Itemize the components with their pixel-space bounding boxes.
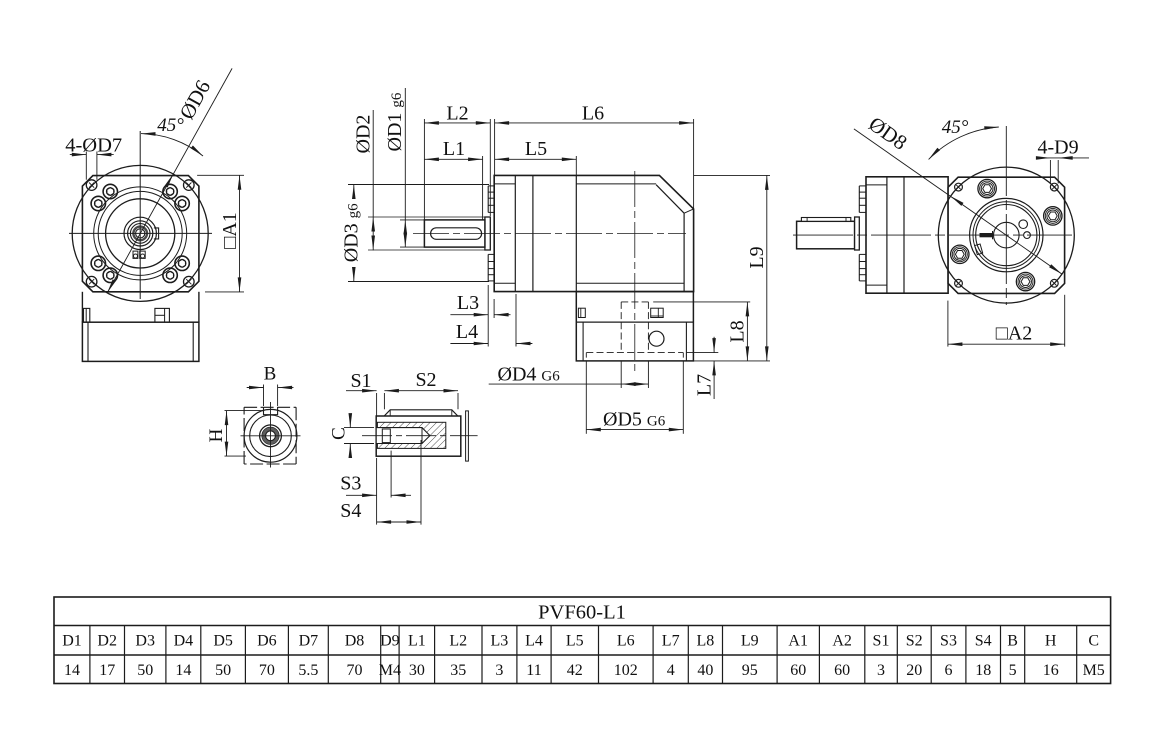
dimension L1 line <box>482 156 484 220</box>
dimension L9 <box>694 174 770 176</box>
svg-text:11: 11 <box>526 662 541 679</box>
svg-text:50: 50 <box>137 662 153 679</box>
svg-text:B: B <box>1007 633 1018 650</box>
svg-text:17: 17 <box>99 662 115 679</box>
middle view: input shaft <box>424 220 485 247</box>
svg-text:L9: L9 <box>746 246 768 268</box>
right view: four socket screws <box>1044 207 1062 225</box>
svg-text:5.5: 5.5 <box>298 662 318 679</box>
svg-text:60: 60 <box>790 662 806 679</box>
svg-text:D8: D8 <box>345 633 365 650</box>
svg-text:30: 30 <box>409 662 425 679</box>
middle view: gearbox body outline <box>494 175 693 291</box>
detail view shaft end: circles <box>244 409 297 462</box>
svg-text:A2: A2 <box>832 633 852 650</box>
middle view: section division lines <box>514 175 516 291</box>
svg-text:D1: D1 <box>62 633 82 650</box>
svg-text:L7: L7 <box>662 633 680 650</box>
svg-text:L4: L4 <box>525 633 543 650</box>
left view: square input flange outline <box>82 176 198 292</box>
detail view shaft end: keyway <box>264 407 278 414</box>
dimension D1 vertical line and arrows <box>404 88 406 247</box>
svg-text:C: C <box>329 427 350 440</box>
left view: corner mounting holes 4-D7 with cross marks <box>86 180 97 191</box>
svg-text:16: 16 <box>1043 662 1059 679</box>
detail section view: counterbore box <box>382 429 390 443</box>
dimension D8 diagonal line <box>854 129 1062 274</box>
left view: left clamp tab <box>84 308 90 322</box>
svg-text:S3: S3 <box>340 473 361 495</box>
svg-text:4: 4 <box>667 662 675 679</box>
middle view: output box right tab <box>651 308 664 317</box>
svg-text:4-ØD7: 4-ØD7 <box>65 135 122 157</box>
svg-text:3: 3 <box>495 662 503 679</box>
dimension B <box>263 385 265 407</box>
dimension D5 G6 <box>585 361 587 434</box>
svg-text:35: 35 <box>450 662 466 679</box>
svg-text:L6: L6 <box>582 103 604 125</box>
dimension 45 degree arc left view <box>141 134 203 156</box>
svg-text:D4: D4 <box>174 633 194 650</box>
svg-text:□A1: □A1 <box>219 212 241 249</box>
dimension 4-D7 extension lines <box>85 152 87 180</box>
right view: two small holes <box>1019 220 1028 229</box>
left view: bore keyway <box>154 228 159 239</box>
middle view: corner chamfer inner edge <box>656 185 684 214</box>
dimension L6 line <box>494 119 496 175</box>
dimension S3 <box>376 458 378 525</box>
dimension L4 <box>515 294 517 347</box>
detail section view: body rectangle <box>376 416 461 456</box>
svg-text:70: 70 <box>347 662 363 679</box>
detail view shaft end: square outline <box>244 406 296 408</box>
left view: bottom block of housing <box>82 322 198 361</box>
right view: square output flange outline <box>948 177 1065 293</box>
right view: shaft shoulder <box>855 217 860 250</box>
svg-text:L2: L2 <box>449 633 467 650</box>
dimension D2 vertical line and arrows <box>372 110 374 250</box>
svg-text:S4: S4 <box>975 633 992 650</box>
right view: crosshair lines <box>793 234 1072 236</box>
dimension D4 G6 leader and arrows <box>620 361 622 388</box>
svg-text:14: 14 <box>175 662 191 679</box>
middle view: serrated clamping strip <box>493 186 495 281</box>
right view: corner holes 4-D9 with cross marks <box>955 183 963 191</box>
dimension D3 line with arrows <box>353 185 355 197</box>
data table column rules <box>89 626 91 684</box>
right view: circle D8 <box>938 167 1074 303</box>
middle view: front flange chamfer lines <box>494 183 515 185</box>
detail section view: tapped hole cavity <box>376 428 430 444</box>
right view: center boss circles <box>970 198 1043 271</box>
svg-text:18: 18 <box>975 662 991 679</box>
right view: bore keyway bar <box>980 233 993 237</box>
middle view: small hole on output box <box>649 331 664 346</box>
svg-text:S1: S1 <box>350 370 371 392</box>
middle view: input shaft shoulder <box>485 217 490 250</box>
svg-text:L8: L8 <box>697 633 715 650</box>
svg-text:42: 42 <box>567 662 583 679</box>
svg-text:L1: L1 <box>443 138 465 160</box>
svg-text:D3: D3 <box>135 633 155 650</box>
svg-text:45°: 45° <box>942 117 969 138</box>
dimension A1 line with arrows <box>239 175 241 292</box>
dimension 4-D7 arrows and line <box>70 154 87 156</box>
right view: shaft key strip <box>801 218 850 222</box>
left view: right clamp tab <box>155 308 170 322</box>
dimension D3 extension lines <box>348 184 489 186</box>
left view: center crosshair lines <box>69 232 212 234</box>
data table outer frame <box>54 597 1111 684</box>
dimension H <box>225 410 264 412</box>
svg-text:4-D9: 4-D9 <box>1038 137 1079 159</box>
middle view: output housing box <box>576 292 693 361</box>
svg-text:S3: S3 <box>940 633 957 650</box>
svg-text:H: H <box>206 428 227 442</box>
middle view: rear square chamfer lines <box>576 183 656 185</box>
svg-text:□A2: □A2 <box>996 323 1033 345</box>
left view: hub circles <box>124 217 156 249</box>
dimension S1 S2 line <box>376 393 378 416</box>
left view: lower band of housing <box>81 292 83 322</box>
svg-text:5: 5 <box>1009 662 1017 679</box>
right view: input shaft <box>797 221 855 249</box>
svg-text:L5: L5 <box>525 138 547 160</box>
svg-text:L5: L5 <box>566 633 584 650</box>
left view: pilot circle D6 <box>72 165 208 301</box>
svg-text:S1: S1 <box>873 633 890 650</box>
right view: side body outline <box>866 177 948 293</box>
dimension D6 diagonal line with arrows <box>107 68 232 293</box>
middle view: output box left tab <box>578 308 585 317</box>
detail section view: cone base line <box>421 428 423 444</box>
middle view: shaft keyway slot <box>431 228 482 240</box>
svg-text:B: B <box>264 364 277 385</box>
svg-text:A1: A1 <box>788 633 808 650</box>
svg-text:95: 95 <box>742 662 758 679</box>
svg-text:20: 20 <box>906 662 922 679</box>
dimension L3 <box>487 285 489 347</box>
detail view shaft end: crosshair <box>270 402 272 468</box>
svg-text:S2: S2 <box>906 633 923 650</box>
svg-text:L7: L7 <box>694 374 716 396</box>
svg-text:L6: L6 <box>617 633 635 650</box>
svg-text:L2: L2 <box>446 103 468 125</box>
svg-text:H: H <box>1045 633 1057 650</box>
svg-text:45°: 45° <box>157 115 184 136</box>
detail section view: centerline <box>362 435 478 437</box>
right view: small notch on bore <box>975 244 983 255</box>
right view: serrated strip <box>858 186 860 213</box>
svg-text:14: 14 <box>64 662 80 679</box>
left view: eight socket head screws on bolt circle <box>175 196 189 210</box>
svg-text:M4: M4 <box>379 662 401 679</box>
dimension L8 <box>746 302 748 361</box>
left view: two small pads below center <box>133 251 138 258</box>
svg-text:L1: L1 <box>408 633 426 650</box>
svg-text:S4: S4 <box>340 500 361 522</box>
svg-text:D6: D6 <box>257 633 277 650</box>
middle view: hidden bore D4 dashed lines <box>620 302 622 353</box>
svg-text:S2: S2 <box>415 369 436 391</box>
dimension L5 line <box>575 156 577 175</box>
svg-text:6: 6 <box>945 662 953 679</box>
svg-text:40: 40 <box>697 662 713 679</box>
svg-text:D9: D9 <box>380 633 400 650</box>
svg-text:C: C <box>1088 633 1099 650</box>
svg-text:L3: L3 <box>491 633 509 650</box>
dimension L7 <box>686 352 718 354</box>
svg-text:ØD2: ØD2 <box>353 115 375 154</box>
svg-text:3: 3 <box>877 662 885 679</box>
left view: body circles <box>94 187 187 280</box>
middle view: output axis centerline <box>634 171 636 372</box>
dimension C <box>344 427 374 429</box>
svg-text:60: 60 <box>834 662 850 679</box>
svg-text:L9: L9 <box>741 633 759 650</box>
detail section view: key on top <box>384 410 458 416</box>
svg-text:L3: L3 <box>457 292 479 314</box>
svg-text:D2: D2 <box>97 633 117 650</box>
dimension A1 extension lines <box>197 174 244 176</box>
svg-text:D5: D5 <box>213 633 233 650</box>
middle view: input axis centerline <box>413 233 686 235</box>
svg-text:70: 70 <box>259 662 275 679</box>
dimension S4 <box>420 440 422 525</box>
svg-text:L4: L4 <box>456 321 478 343</box>
svg-text:102: 102 <box>614 662 638 679</box>
dimension 4-D9 <box>1049 160 1051 183</box>
data table horizontal rules <box>54 625 1111 627</box>
svg-text:M5: M5 <box>1083 662 1105 679</box>
svg-text:PVF60-L1: PVF60-L1 <box>538 602 626 624</box>
svg-text:L8: L8 <box>727 320 749 342</box>
dimension 45 degree arc right view <box>929 127 999 159</box>
detail section view: right retainer plate <box>466 411 469 461</box>
svg-text:D7: D7 <box>299 633 319 650</box>
dimension L2 line <box>423 119 425 220</box>
svg-text:50: 50 <box>215 662 231 679</box>
dimension A2 <box>947 301 949 347</box>
